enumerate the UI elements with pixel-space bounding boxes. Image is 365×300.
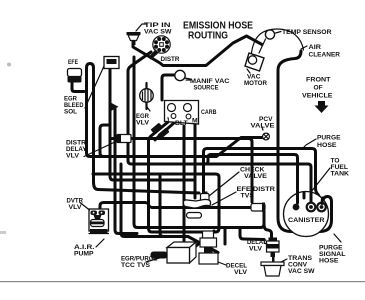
wire fitting out corner down to delay valve	[264, 224, 272, 238]
svg-text:HOSE: HOSE	[319, 258, 339, 265]
distr delay valve inline	[84, 135, 131, 157]
pointer manif vac	[185, 78, 190, 79]
svg-text:CANISTER: CANISTER	[288, 217, 325, 224]
svg-text:TEMP SENSOR: TEMP SENSOR	[282, 29, 332, 36]
canister port 2	[307, 203, 316, 212]
svg-text:VLV: VLV	[66, 153, 79, 160]
tee nub fitting on v110	[112, 103, 119, 111]
hose fitting near delay valve	[251, 203, 265, 213]
wire purge hose: air cleaner down around canister up to port3	[278, 51, 332, 232]
wire decel cross diagonal	[196, 231, 214, 246]
wire branch from h227 down to delay valve inlet	[240, 228, 264, 240]
svg-text:TANK: TANK	[331, 171, 350, 178]
wire U loop legs, right leg down to DVTR valve	[87, 64, 94, 183]
distributor	[148, 36, 170, 60]
wire v87 down corner into h156 diagonal up to PCV valve	[87, 92, 263, 157]
svg-text:FRONT: FRONT	[306, 77, 331, 84]
wire jog up from h164 to h154 across to canister port1	[205, 155, 298, 204]
canister port riser segments	[296, 193, 299, 203]
gray dot left margin	[7, 63, 11, 67]
svg-text:VALVE: VALVE	[251, 123, 276, 130]
temp sensor	[265, 30, 274, 39]
trans conv vac sw	[261, 257, 287, 276]
svg-text:VLV: VLV	[69, 204, 82, 211]
efe valve	[68, 69, 82, 83]
svg-text:SOURCE: SOURCE	[194, 85, 219, 92]
wire EGR bleed sol drop down to h180	[110, 68, 195, 180]
pointer to fuel tank	[311, 168, 330, 192]
svg-text:CLEANER: CLEANER	[309, 52, 341, 59]
wire vertical x115 down corner right	[115, 108, 137, 234]
wire delay valve out right along h139 corner down to fitting	[131, 139, 252, 203]
svg-text:PURGE: PURGE	[317, 135, 341, 142]
svg-text:CARB: CARB	[201, 109, 217, 116]
svg-text:TVS: TVS	[241, 193, 255, 200]
svg-text:VAC SW: VAC SW	[288, 268, 315, 275]
labels-layer	[64, 21, 349, 277]
wires-layer	[72, 36, 332, 253]
svg-text:OF: OF	[314, 85, 323, 92]
pointer air cleaner	[301, 46, 307, 49]
canister	[284, 192, 329, 237]
svg-text:J: J	[166, 117, 170, 124]
svg-text:VAC SW: VAC SW	[144, 29, 172, 36]
gray dash left lower	[0, 231, 6, 234]
egr bleed solenoid	[85, 57, 119, 109]
pointer purge hose	[303, 139, 316, 148]
wire v134 from X crossing down corner into h207 to fitting	[134, 57, 264, 228]
manif vac source fitting	[175, 70, 190, 80]
air cleaner arc	[251, 29, 304, 58]
wire manif vac source drop to carb top	[162, 75, 174, 100]
bottom rule	[0, 281, 365, 282]
wire vertical x121 from h164 down to decel diagonal	[121, 164, 218, 253]
wire branch to distr delay valve	[110, 137, 117, 140]
svg-text:BLT: BLT	[175, 120, 189, 127]
wire vertical x186 carb area down to TCC TVS	[183, 126, 186, 243]
svg-text:AIR: AIR	[309, 44, 322, 51]
decel valve	[199, 231, 226, 265]
wire branch from v93 to check valve	[94, 182, 200, 193]
egr purge tcc tvs box	[146, 242, 196, 263]
canister port 1	[293, 204, 300, 211]
carb BLT hose unions	[151, 123, 163, 134]
svg-text:PUMP: PUMP	[74, 251, 94, 258]
check valve fitting	[201, 172, 240, 201]
svg-text:ROUTING: ROUTING	[188, 31, 228, 42]
wire short riser to decel area	[224, 228, 227, 245]
dvtr valve pill	[91, 220, 105, 227]
wire loop from v110 down to h156	[100, 125, 110, 157]
canister port 3	[317, 203, 326, 212]
svg-text:VLV: VLV	[249, 246, 262, 253]
svg-text:TCC TVS: TCC TVS	[121, 262, 150, 269]
pcv valve fitting	[262, 127, 269, 140]
wire v160 from h174 down to h236	[160, 174, 170, 237]
carburetor	[165, 101, 199, 128]
wire EFE drop to U loop	[72, 83, 84, 92]
vac motor	[245, 39, 266, 73]
distributor vane	[148, 49, 158, 60]
wire carb port J diagonal down loop h174 v219 h232	[93, 122, 219, 232]
wire tip-in vac sw down and across to temp sensor	[133, 36, 262, 66]
svg-text:VLV: VLV	[136, 120, 149, 127]
air pump body	[80, 203, 109, 248]
svg-text:DISTR: DISTR	[161, 56, 180, 63]
pointer purge signal hose	[334, 234, 341, 242]
wire carb port BLT diagonal	[155, 122, 175, 140]
efe-distr tvs bracket	[183, 192, 236, 218]
egr valve	[140, 83, 154, 111]
wire h202 from air pump riser jog into h207 to fitting	[100, 203, 251, 210]
front of vehicle arrow	[315, 101, 329, 113]
delay valve (bottom right)	[264, 238, 279, 258]
wire check valve riser h147 across corner down to canister port3	[204, 149, 321, 200]
svg-text:SOL: SOL	[64, 109, 77, 116]
svg-text:M: M	[192, 118, 198, 125]
svg-text:MOTOR: MOTOR	[244, 80, 267, 87]
svg-text:VALVE: VALVE	[244, 173, 267, 180]
svg-text:HOSE: HOSE	[317, 142, 337, 149]
pointer temp sensor	[276, 32, 282, 34]
svg-text:VEHICLE: VEHICLE	[302, 93, 333, 100]
svg-text:EFE: EFE	[68, 59, 78, 66]
tip-in vac sw trumpet	[127, 24, 147, 45]
wire carb port M vertical to TVS bracket	[194, 124, 197, 198]
svg-text:VLV: VLV	[234, 269, 247, 276]
wire distributor vane down-left into h164 across to canister port2	[128, 52, 311, 202]
